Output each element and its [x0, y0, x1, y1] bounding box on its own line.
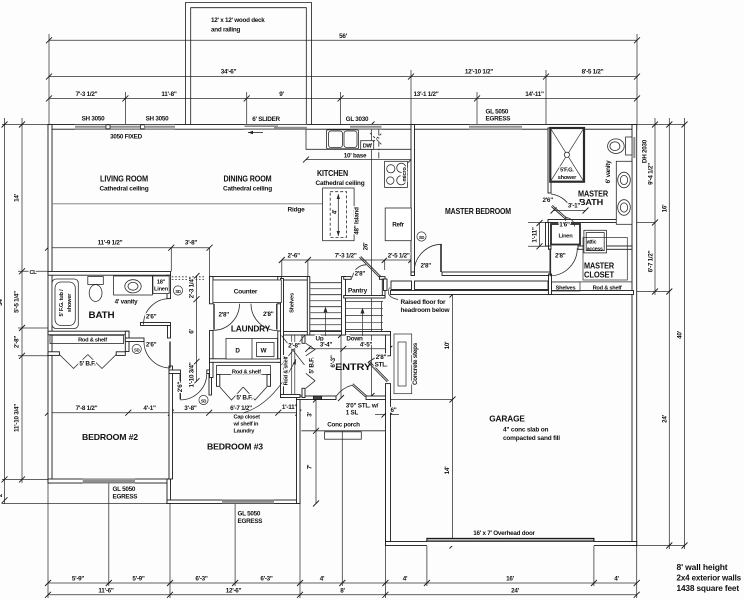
svg-text:8'-5 1/2": 8'-5 1/2"	[582, 69, 604, 76]
extension x411 kitchen wall	[410, 70, 412, 125]
deck railing outer	[186, 3, 312, 127]
svg-text:compacted sand fill: compacted sand fill	[503, 435, 560, 442]
svg-text:BEDROOM #2: BEDROOM #2	[82, 432, 139, 442]
smoke detector bedroom3	[199, 395, 208, 404]
right horiz extension y545.5	[637, 545, 685, 547]
dishwasher DW	[361, 141, 374, 150]
bedroom2 dim line y412.7	[48, 412, 298, 414]
svg-text:6' vanity: 6' vanity	[605, 160, 612, 183]
svg-text:3050 FIXED: 3050 FIXED	[110, 134, 143, 141]
bedroom3 closet stub right	[267, 375, 271, 387]
svg-text:7'-8 1/2": 7'-8 1/2"	[76, 405, 98, 412]
bedroom2 door arc	[144, 342, 171, 369]
stair treads down flight	[346, 301, 384, 303]
master bedroom door arc	[414, 244, 442, 272]
svg-text:SH 3050: SH 3050	[146, 116, 170, 123]
refrigerator	[385, 208, 411, 241]
right horiz extension y124.5	[637, 124, 685, 126]
master vanity	[616, 161, 632, 224]
smoke detector hall	[173, 286, 182, 295]
bedroom2 north wall stub	[125, 338, 144, 342]
svg-text:4': 4'	[320, 576, 325, 583]
raised floor band box left	[391, 281, 548, 290]
stair treads up flight	[310, 282, 342, 284]
bottom extension x636.7	[636, 546, 638, 598]
svg-text:13'-1 1/2": 13'-1 1/2"	[413, 91, 438, 98]
coat closet inner lines	[291, 335, 293, 395]
svg-text:Laundry: Laundry	[234, 429, 256, 435]
bottom extension x235	[234, 504, 236, 587]
svg-text:3'-4": 3'-4"	[320, 342, 333, 349]
shower 5' FG	[550, 128, 584, 182]
svg-text:Cathedral ceiling: Cathedral ceiling	[316, 180, 365, 187]
svg-text:shower: shower	[558, 175, 577, 181]
stair mid wall / pantry west wall	[342, 277, 346, 336]
stair west wall	[307, 277, 310, 336]
laundry south wall	[210, 359, 282, 363]
laundry west wall lower	[210, 331, 214, 378]
left horiz extension y124.5	[2, 124, 48, 126]
svg-text:8' wall height: 8' wall height	[677, 562, 728, 572]
svg-text:4': 4'	[332, 209, 339, 214]
bedroom2 closet stub left	[48, 352, 59, 356]
svg-text:9': 9'	[279, 91, 284, 98]
svg-text:DW: DW	[363, 144, 373, 150]
svg-text:SH 3050: SH 3050	[82, 116, 106, 123]
svg-text:11'-10 3/4": 11'-10 3/4"	[14, 404, 21, 432]
svg-text:W: W	[261, 348, 267, 355]
washer dryer unit	[226, 339, 278, 360]
svg-text:Rod & shelf: Rod & shelf	[232, 370, 261, 376]
kitchen sink basin left	[329, 131, 343, 148]
slider arrow	[248, 132, 263, 134]
master closet shelf band	[552, 282, 633, 291]
6 inch wall dim near garage	[375, 414, 399, 416]
pantry south wall	[344, 296, 385, 299]
svg-text:GL 3030: GL 3030	[346, 116, 369, 123]
window GL 5050 egress master bedroom	[469, 124, 522, 129]
svg-text:3'-8": 3'-8"	[184, 405, 197, 412]
svg-text:2'8": 2'8"	[376, 354, 387, 361]
svg-text:SD: SD	[175, 289, 181, 294]
kitchen / master bedroom divider wall	[411, 125, 415, 276]
left horiz extension y271.3 CL	[18, 270, 48, 272]
island 4' arrow line	[337, 194, 340, 236]
svg-text:2'6": 2'6"	[542, 197, 553, 204]
svg-text:4" conc slab on: 4" conc slab on	[503, 427, 548, 434]
front door arc	[336, 385, 352, 396]
extension x246	[246, 92, 248, 125]
ticks top dim rows	[46, 37, 640, 101]
svg-text:Pantry: Pantry	[348, 288, 368, 295]
bedroom3 west wall stub	[209, 374, 212, 396]
svg-text:40': 40'	[677, 330, 684, 339]
extension line left corner vertical	[48, 34, 50, 125]
entry front wall east segment	[366, 396, 391, 400]
svg-text:2'8": 2'8"	[355, 271, 366, 278]
front door sidelite	[314, 396, 322, 400]
right horiz extension y291.5	[637, 291, 669, 293]
svg-text:6': 6'	[189, 328, 196, 333]
svg-text:2'6": 2'6"	[146, 314, 157, 321]
svg-text:headroom below: headroom below	[401, 307, 451, 314]
kitchen sink basin right	[344, 131, 357, 148]
exterior right wall	[632, 125, 637, 546]
bath tub 5' FG	[52, 279, 78, 329]
svg-text:w/ shelf in: w/ shelf in	[233, 422, 260, 428]
svg-text:Raised floor for: Raised floor for	[401, 299, 447, 306]
master bedroom south wall	[442, 272, 551, 276]
exterior top wall	[48, 125, 637, 130]
porch step	[325, 432, 362, 439]
svg-text:GL 5050: GL 5050	[486, 109, 509, 116]
svg-text:BEDROOM #3: BEDROOM #3	[207, 442, 264, 452]
kitchen island inner dashed	[330, 192, 346, 238]
bedroom2/3 jog wall	[167, 479, 171, 504]
laundry east wall lower	[278, 331, 282, 362]
svg-text:3'0" STL. w/: 3'0" STL. w/	[346, 403, 379, 410]
svg-text:56': 56'	[339, 33, 348, 40]
window GL 3030 kitchen	[350, 124, 382, 129]
bottom extension x426.9 overhead door left	[426, 546, 428, 586]
svg-text:2'8": 2'8"	[421, 263, 432, 270]
extension x340	[340, 92, 342, 125]
svg-text:2'-8": 2'-8"	[14, 336, 21, 349]
svg-text:GL 5050: GL 5050	[238, 511, 261, 518]
svg-text:2'-8": 2'-8"	[288, 343, 301, 350]
garage west wall lower	[386, 384, 391, 542]
left horiz extension y479.4	[2, 478, 48, 480]
svg-text:3'-8": 3'-8"	[185, 240, 198, 247]
svg-text:5' B.F.: 5' B.F.	[236, 395, 253, 402]
bath east wall upper	[167, 275, 171, 298]
svg-text:1 SL: 1 SL	[346, 410, 359, 417]
pantry door arc	[353, 265, 367, 278]
pantry north wall west jamb	[344, 277, 352, 280]
left dim line x22 (14'/5'-5 1/4/2'-8/11'-10 3/4)	[21, 118, 23, 483]
extension x125	[124, 92, 126, 125]
stair landing wall	[281, 332, 391, 336]
coat closet bifold vertical	[306, 343, 315, 388]
closet divider wall	[125, 331, 129, 351]
master closet north wall stub	[549, 246, 552, 249]
bedroom3 door arc	[180, 373, 207, 400]
right dim line x669 (16' / 24')	[668, 118, 670, 549]
svg-text:26': 26'	[363, 242, 370, 251]
bedroom2 closet rod and shelf band	[50, 335, 124, 343]
master bath 3'-1 dim	[554, 210, 586, 212]
smoke detector hall south	[132, 344, 141, 353]
svg-text:2'6": 2'6"	[146, 342, 157, 349]
svg-text:24': 24'	[511, 588, 520, 595]
window SH 3050 right	[145, 124, 176, 129]
bedroom2 bottom wall	[48, 479, 171, 483]
svg-text:34'-6": 34'-6"	[221, 69, 237, 76]
svg-text:Cap closet: Cap closet	[234, 415, 261, 421]
left horiz extension y328	[18, 327, 48, 329]
svg-text:Concrete steps: Concrete steps	[412, 342, 419, 385]
svg-text:EGRESS: EGRESS	[113, 494, 138, 501]
window DH 2030 east wall	[632, 137, 637, 158]
linen door arc	[566, 218, 575, 227]
window GL 5050 egress bedroom2	[83, 479, 135, 484]
ticks bottom dims	[45, 580, 640, 598]
bottom dim row1 y583	[48, 582, 637, 584]
master bedroom door leaf	[440, 244, 442, 272]
svg-text:11'-9 1/2": 11'-9 1/2"	[98, 240, 123, 247]
coat closet X cross	[282, 336, 305, 366]
stair landing dim y348.8	[308, 348, 389, 350]
raised floor stub wall	[384, 279, 388, 291]
entry front wall west segment	[297, 396, 337, 400]
svg-text:6'-3": 6'-3"	[330, 355, 337, 368]
svg-text:2': 2'	[0, 492, 4, 497]
svg-text:16': 16'	[662, 204, 669, 213]
svg-text:and railing: and railing	[211, 27, 240, 34]
master bath west wall	[548, 128, 551, 193]
svg-text:5'-9": 5'-9"	[72, 576, 85, 583]
svg-text:11'-6": 11'-6"	[98, 588, 114, 595]
svg-text:shower: shower	[67, 293, 73, 312]
coat closet bottom wall	[281, 395, 301, 398]
kitchen island outer	[323, 188, 355, 241]
svg-text:6'-7 1/2": 6'-7 1/2"	[230, 405, 252, 412]
smoke detector master bedroom	[417, 232, 426, 241]
svg-text:10': 10'	[444, 341, 451, 350]
linen 1'-11 dim x539.5	[539, 223, 541, 247]
svg-text:1'6": 1'6"	[559, 222, 570, 229]
svg-text:7'-3 1/2": 7'-3 1/2"	[335, 253, 357, 260]
svg-text:18": 18"	[157, 280, 166, 286]
right horiz extension y222.5	[618, 222, 655, 224]
svg-text:6'-7 1/2": 6'-7 1/2"	[648, 250, 655, 272]
garage interior dim line x452.5 (10'/14')	[452, 295, 454, 546]
laundry east wall upper	[278, 277, 282, 304]
entry 6'-3 vertical dim x341	[340, 335, 342, 398]
svg-text:SD: SD	[134, 347, 140, 352]
svg-text:2'8": 2'8"	[555, 253, 566, 260]
svg-text:6'-3": 6'-3"	[260, 576, 273, 583]
linen closet box	[551, 224, 580, 245]
svg-text:7': 7'	[307, 464, 314, 469]
svg-text:3': 3'	[307, 411, 314, 416]
master bath door leaf	[551, 205, 567, 220]
svg-text:10' base: 10' base	[344, 153, 367, 160]
linen door leaf	[565, 218, 567, 227]
bedroom2 closet bifold doors	[59, 355, 116, 369]
laundry door left leaf	[213, 304, 215, 330]
counter dashed corner lines	[370, 133, 382, 145]
svg-text:Refr: Refr	[392, 222, 404, 229]
svg-text:2'-5 1/2": 2'-5 1/2"	[388, 253, 410, 260]
svg-text:4' vanity: 4' vanity	[115, 299, 138, 306]
extension x546 bath wall	[545, 70, 547, 125]
svg-text:5' F.G. tub /: 5' F.G. tub /	[59, 289, 65, 317]
concrete steps outer	[394, 334, 412, 394]
svg-text:LAUNDRY: LAUNDRY	[231, 324, 271, 334]
svg-text:12'-6": 12'-6"	[226, 588, 242, 595]
laundry north wall	[210, 277, 308, 281]
svg-text:3'-1": 3'-1"	[568, 203, 581, 210]
coat closet west wall	[281, 279, 284, 398]
svg-text:ENTRY: ENTRY	[335, 362, 371, 372]
front door leaf	[352, 384, 367, 397]
bottom extension x300	[299, 504, 301, 599]
entry-garage door leaf	[368, 361, 389, 382]
laundry door left arc	[213, 304, 240, 331]
master closet door leaf	[549, 248, 551, 275]
ticks right dims	[652, 122, 688, 549]
svg-text:Conc porch: Conc porch	[327, 422, 360, 429]
svg-text:D: D	[235, 348, 240, 355]
master closet door arc	[550, 248, 578, 275]
master bedroom south wall stub	[411, 272, 415, 276]
svg-text:BATH: BATH	[89, 310, 115, 321]
bath east corner vertical	[168, 326, 171, 339]
bath south wall	[48, 331, 129, 335]
porch front edge line	[301, 430, 385, 432]
bath north wall (living room side)	[48, 272, 171, 276]
ridge line	[52, 203, 323, 205]
svg-text:Shelves: Shelves	[556, 286, 576, 292]
svg-text:16' x 7' Overhead door: 16' x 7' Overhead door	[473, 530, 535, 537]
svg-text:Linen: Linen	[559, 234, 574, 240]
bedroom2 east wall (hall)	[169, 366, 173, 479]
bath vanity	[114, 276, 153, 295]
svg-text:MASTER BEDROOM: MASTER BEDROOM	[445, 206, 511, 216]
svg-text:DINING ROOM: DINING ROOM	[224, 174, 272, 184]
svg-text:CL: CL	[29, 270, 37, 276]
master closet west wall lower	[549, 274, 552, 295]
svg-text:1'-10 3/4": 1'-10 3/4"	[189, 362, 196, 387]
svg-text:Rod & shelf: Rod & shelf	[593, 286, 622, 292]
bottom extension x342 porch	[341, 431, 343, 586]
svg-text:SD: SD	[201, 398, 207, 403]
left dim line x4.5 (34' / 2')	[4, 118, 6, 504]
svg-text:Ridge: Ridge	[287, 207, 305, 214]
garage west wall upper	[386, 332, 391, 356]
svg-text:11'-8": 11'-8"	[161, 91, 177, 98]
bedroom3 closet stub left	[217, 375, 220, 387]
pantry door leaf	[359, 257, 381, 278]
svg-text:48" Island: 48" Island	[354, 207, 361, 235]
svg-text:6' SLIDER: 6' SLIDER	[252, 116, 280, 123]
master toilet	[608, 137, 632, 155]
svg-text:4': 4'	[403, 576, 408, 583]
svg-text:7'-3 1/2": 7'-3 1/2"	[76, 91, 98, 98]
svg-text:5' B.F.: 5' B.F.	[79, 361, 96, 368]
svg-text:BATH: BATH	[579, 197, 603, 207]
svg-text:2'6": 2'6"	[177, 381, 184, 392]
svg-text:4'-1": 4'-1"	[143, 405, 156, 412]
garage bottom wall	[386, 542, 637, 546]
left horiz extension y503.5 bedroom3 wall line	[2, 503, 167, 505]
laundry counter	[213, 280, 281, 303]
laundry door right arc	[251, 304, 278, 331]
svg-text:1438 square feet: 1438 square feet	[677, 583, 740, 593]
pantry east wall	[382, 279, 385, 298]
window 6' slider	[245, 124, 308, 134]
svg-text:34': 34'	[0, 297, 4, 306]
extension x637 right corner	[636, 34, 638, 125]
svg-text:14': 14'	[14, 193, 21, 202]
bedroom3 bottom wall	[167, 500, 300, 504]
svg-text:LIVING ROOM: LIVING ROOM	[100, 174, 148, 184]
stair down flight side rail	[381, 302, 383, 332]
ticks left dims	[2, 122, 26, 504]
bedroom2 door leaf	[169, 342, 171, 368]
svg-text:1'-11": 1'-11"	[282, 404, 298, 411]
svg-text:1'-11": 1'-11"	[532, 227, 539, 243]
svg-text:2'8": 2'8"	[219, 312, 230, 319]
svg-text:GARAGE: GARAGE	[489, 414, 525, 424]
bottom extension x170	[169, 483, 171, 598]
down arrow	[361, 308, 365, 337]
bath toilet	[88, 277, 104, 302]
svg-text:2'-6": 2'-6"	[288, 253, 301, 260]
kitchen sink rim	[327, 130, 359, 149]
hall header dotted lines	[172, 276, 206, 278]
svg-text:EGRESS: EGRESS	[486, 116, 511, 123]
raised floor leader arrow	[388, 288, 398, 300]
vestibule west wall	[546, 223, 549, 247]
svg-text:KITCHEN: KITCHEN	[317, 168, 348, 178]
bedroom3 closet bifold doors	[220, 387, 267, 400]
svg-text:4'-5": 4'-5"	[360, 342, 373, 349]
10' base dim line kitchen	[306, 159, 411, 161]
up arrow	[324, 307, 328, 337]
dim line 56' top	[49, 39, 637, 41]
svg-text:2x4 exterior walls: 2x4 exterior walls	[677, 573, 742, 583]
bottom extension x48	[47, 483, 49, 598]
bottom extension x385.4	[384, 434, 386, 598]
window SH 3050 left	[75, 124, 107, 129]
master closet north wall	[578, 246, 632, 249]
laundry west wall upper	[210, 277, 214, 304]
counter dash-dot reference line	[378, 129, 380, 160]
svg-text:5'-9": 5'-9"	[132, 576, 145, 583]
bedroom3 closet rod and shelf band	[217, 366, 271, 375]
svg-text:CLOSET: CLOSET	[584, 270, 614, 280]
entry-garage door arc	[368, 356, 386, 362]
svg-text:access: access	[587, 247, 603, 253]
master bath door arc	[551, 194, 570, 207]
garage overhead door	[427, 538, 594, 546]
svg-text:8': 8'	[340, 588, 345, 595]
pantry north wall east jamb	[379, 277, 385, 280]
svg-text:attic: attic	[587, 240, 597, 246]
dim line 7'-3 1/2 / 11'-8 / 9' / 13'-1 1/2 / 14'-11	[49, 97, 637, 99]
svg-text:Cathedral ceiling: Cathedral ceiling	[223, 186, 272, 193]
bath linen cabinet	[153, 276, 169, 294]
svg-text:Linen: Linen	[154, 287, 169, 293]
svg-text:5' B.F.: 5' B.F.	[308, 357, 315, 374]
attic access box	[584, 230, 607, 253]
svg-text:24': 24'	[662, 414, 669, 423]
garage north wall	[391, 291, 634, 295]
svg-text:6'-3": 6'-3"	[195, 576, 208, 583]
hall end wall stub	[169, 370, 181, 374]
bedroom2 closet stub right	[116, 352, 125, 356]
svg-text:DH 2030: DH 2030	[642, 139, 649, 163]
exterior left wall	[48, 125, 52, 484]
cap closet leader arrow	[243, 359, 296, 413]
living room dim line y247.7	[48, 247, 210, 249]
svg-text:4': 4'	[614, 576, 619, 583]
dining dim line y260	[282, 259, 412, 261]
svg-text:Rod & shelf: Rod & shelf	[284, 356, 290, 385]
kitchen counter edge	[306, 129, 411, 149]
